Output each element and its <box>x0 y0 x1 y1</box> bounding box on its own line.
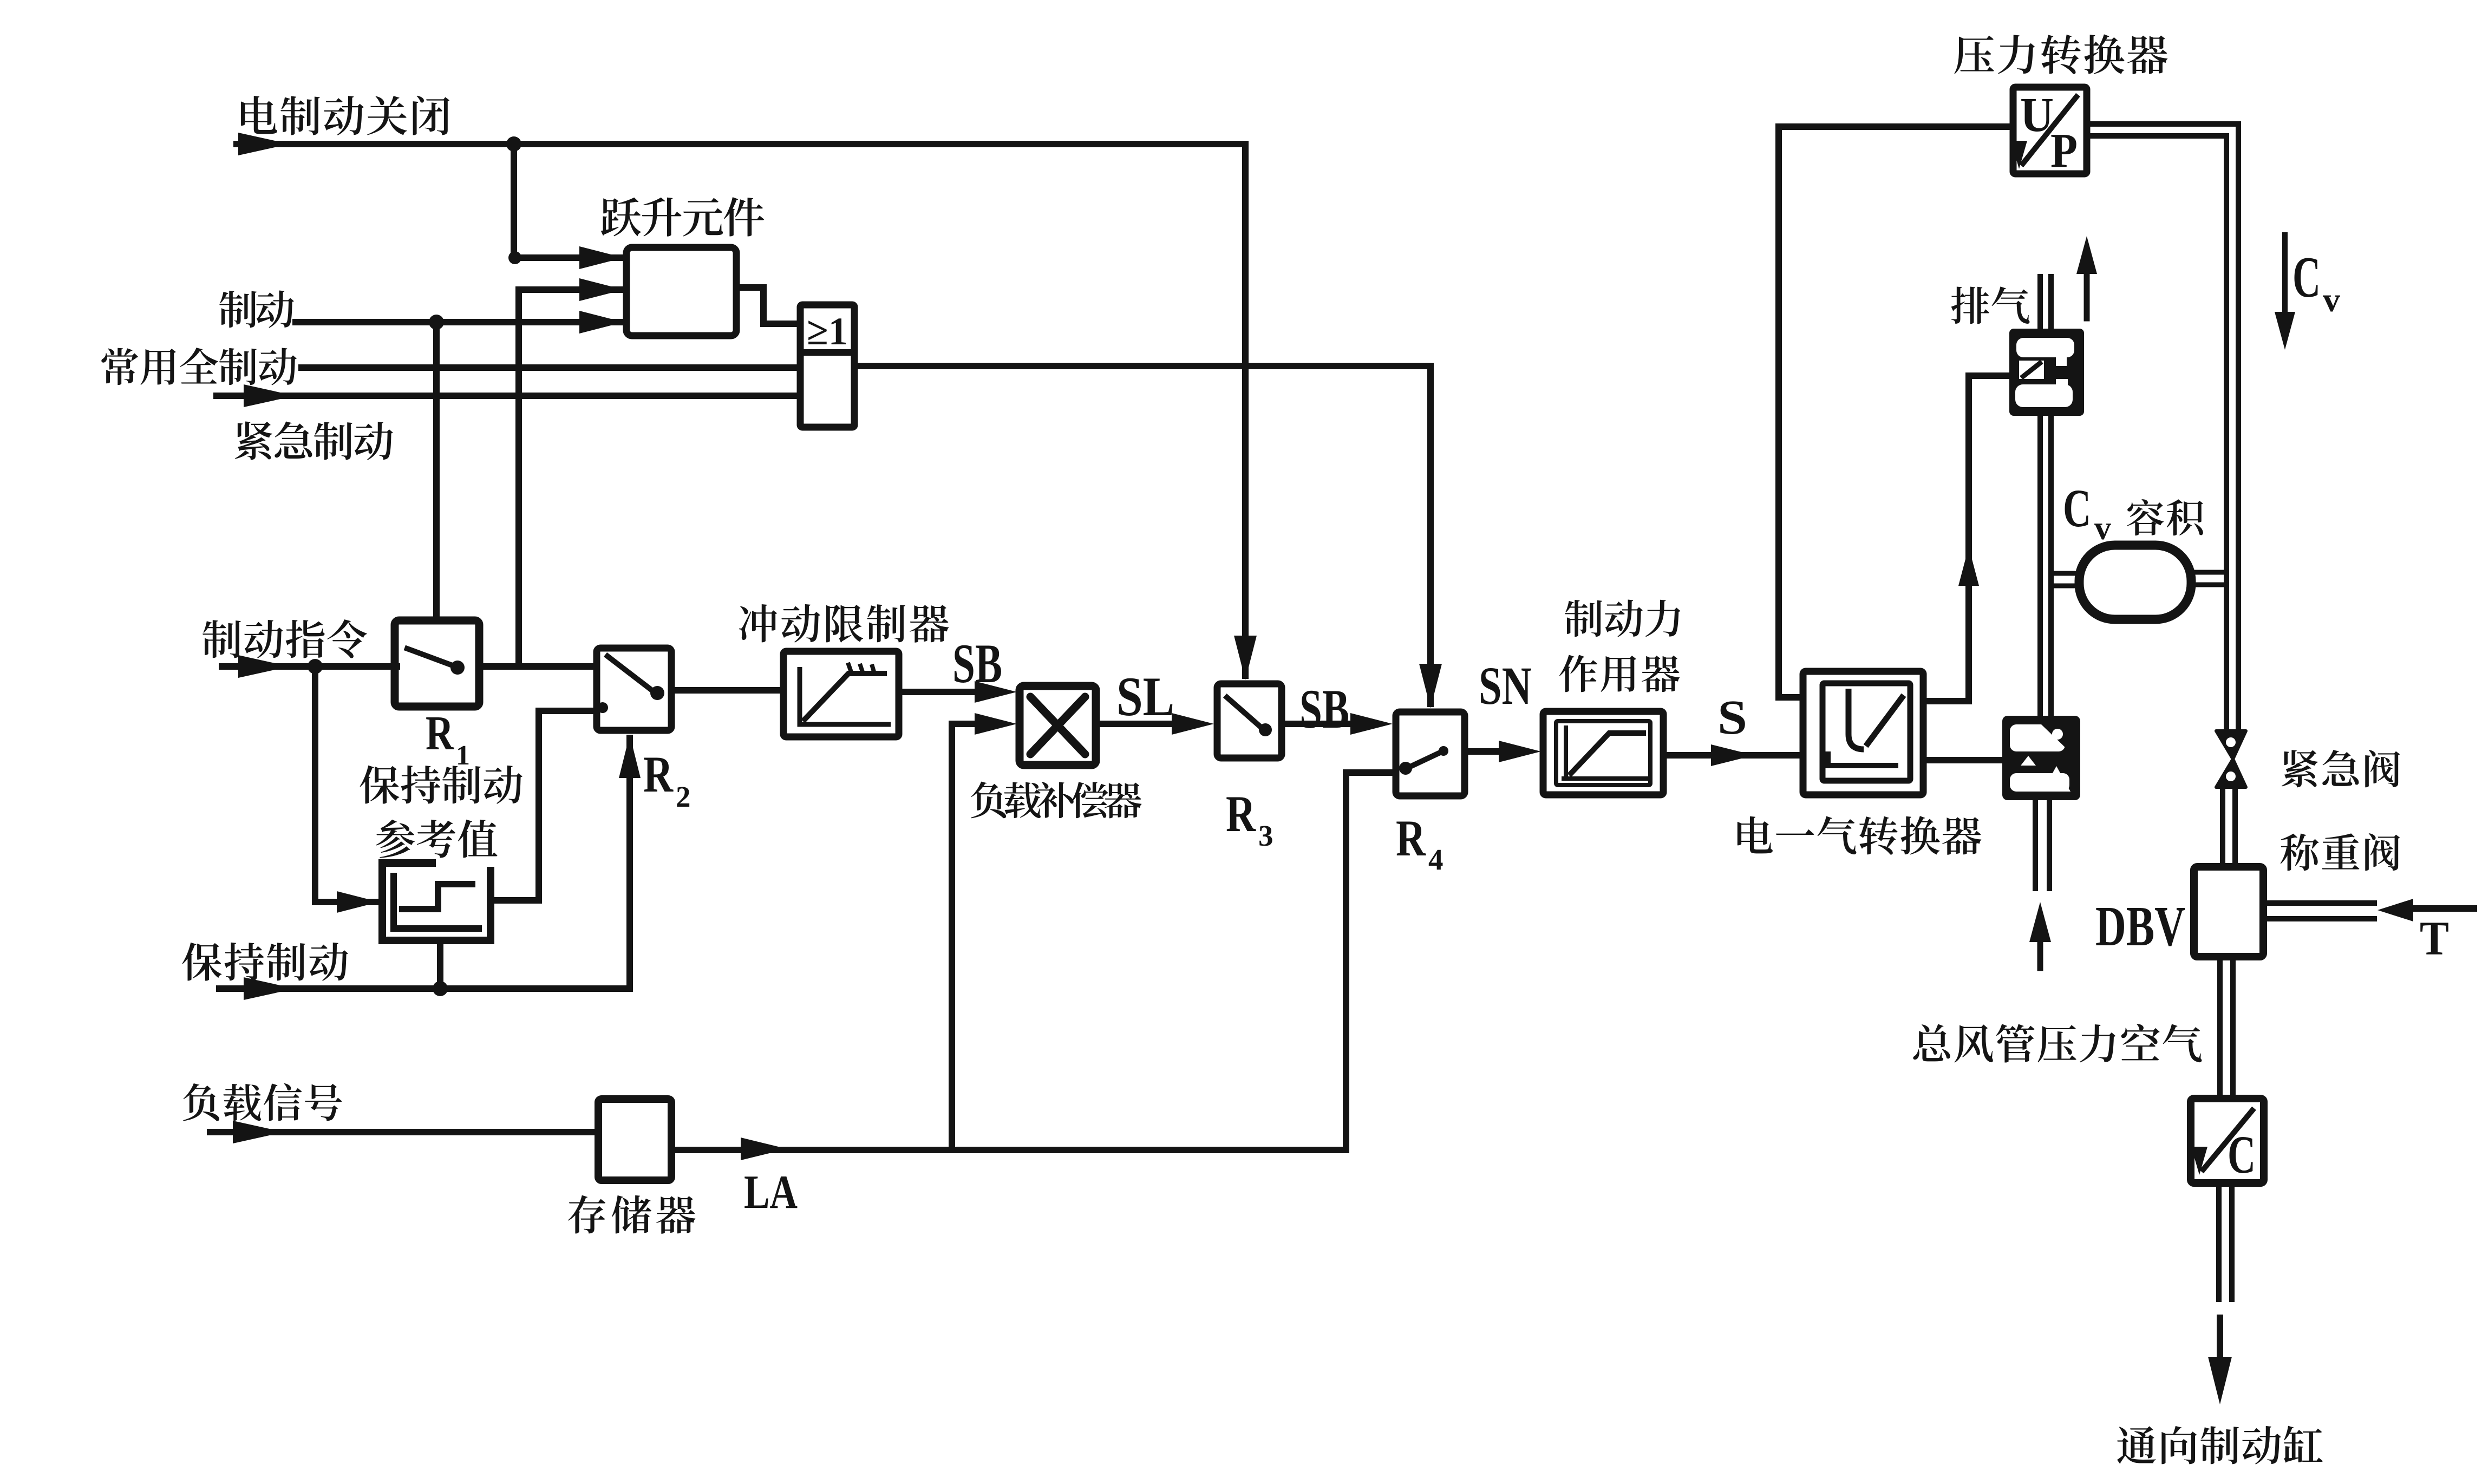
svg-text:P: P <box>2050 124 2078 178</box>
contact dot R2 <box>650 686 664 700</box>
E-P converter valve curve symbol <box>1849 689 1864 749</box>
box: jerk limiter <box>783 651 899 737</box>
svg-text:SB: SB <box>1299 678 1349 740</box>
arrowhead on 制动指令 input <box>238 655 290 678</box>
pipe: C box down <box>2216 1183 2222 1299</box>
exhaust solenoid valve <box>2009 329 2084 416</box>
svg-text:SB: SB <box>952 633 1002 695</box>
label: 容积 (volume) <box>2127 499 2203 535</box>
node: junction on 制动指令 line <box>308 659 323 674</box>
label: 负载补偿器 (load compensator) <box>971 782 1141 819</box>
label: 跃升元件 (jump element) <box>601 197 764 237</box>
arrowhead jump input 2 <box>579 278 624 301</box>
wire: 电制动关闭 line <box>237 141 1245 147</box>
contact dot R3 <box>1259 723 1272 736</box>
main reservoir inlet arrow <box>2037 924 2043 968</box>
wire: 制动指令 down to hold-brake reference <box>315 666 376 902</box>
label: 保持制动 reference line1 <box>360 766 522 804</box>
label: 总风管压力空气 (main reservoir pipe air) <box>1913 1024 2202 1062</box>
wire: 制动 line to jump unit <box>296 319 623 325</box>
wire: 紧急制动 line to OR gate <box>217 393 800 399</box>
arrowhead jump input 3 <box>579 311 624 334</box>
arrowhead into load compensator in 2 <box>975 713 1017 735</box>
arrowhead on C diagonal <box>2191 1147 2207 1175</box>
port dot R4 <box>1399 762 1412 775</box>
pipe: DBV right to T <box>2263 900 2374 906</box>
wire: pressure feedback into E-P converter <box>1779 694 1800 701</box>
box: OR gate ≥1 <box>800 305 854 427</box>
label: 压力转换器 (pressure transducer) <box>1954 34 2167 74</box>
label: 称重阀 (weighing valve) <box>2281 833 2400 871</box>
box: memory 存储器 <box>598 1099 671 1180</box>
flow arrow Cv down <box>2282 235 2288 336</box>
wire: 电制动关闭 drop to R3 top <box>1242 144 1249 676</box>
label: 制动 (brake) <box>219 291 294 328</box>
svg-text:T: T <box>2420 912 2449 965</box>
box: load compensator multiplier <box>1020 686 1096 765</box>
arrowhead into R4 <box>1350 713 1393 735</box>
svg-text:C: C <box>2292 245 2321 310</box>
divider of OR gate box <box>800 349 854 356</box>
box: E-P converter inner <box>1823 683 1910 781</box>
switch blade R4 <box>1406 751 1444 769</box>
wire: feedback loop up to U-P transducer <box>1779 127 2010 697</box>
wire: SL output to R3 <box>1096 721 1176 727</box>
pipe: DBV down to C transducer <box>2217 957 2223 1099</box>
svg-text:R: R <box>1396 809 1426 867</box>
box: C pressure transducer <box>2191 1099 2264 1183</box>
wire: 制动指令 into R1 <box>222 663 397 670</box>
box: U-P transducer <box>2013 87 2087 174</box>
actuator curve symbol <box>1562 725 1649 779</box>
wire: E-P output to relay valve <box>1923 757 2002 763</box>
box: relay R3 <box>1217 684 1282 758</box>
arrowhead into R3 <box>1172 713 1214 735</box>
C box diagonal <box>2202 1108 2254 1172</box>
wire: S output into E-P converter <box>1663 752 1800 759</box>
label: 电一气转换器 (electro-pneumatic converter) <box>1738 816 1982 855</box>
switch blade R3 <box>1227 697 1263 729</box>
label: 冲动限制器 (jerk limiter) <box>739 604 949 643</box>
box: relay R2 <box>597 648 671 730</box>
arrowhead into brake-force actuator <box>1499 741 1541 762</box>
wire: R3 SB output to R4 <box>1282 721 1358 727</box>
pipe: exhaust pipes above valve <box>2037 277 2043 329</box>
svg-text:SN: SN <box>1479 656 1532 716</box>
emergency valve knot <box>2216 731 2246 787</box>
wire: 常用全制动 line to OR gate <box>302 364 800 371</box>
wire: T stub <box>2413 905 2474 912</box>
arrowhead into load compensator in 1 <box>975 681 1017 703</box>
svg-text:3: 3 <box>1258 819 1273 852</box>
svg-text:S: S <box>1717 691 1747 744</box>
contact dot R1 <box>450 661 465 675</box>
wire: store bottom to 保持制动 line <box>437 944 443 989</box>
contact dot R4 <box>1439 746 1448 756</box>
label: 常用全制动 (full service brake) <box>101 348 297 385</box>
node: junction on 电制动关闭 line <box>506 136 521 152</box>
arrowhead on S line <box>1711 744 1754 766</box>
wire: control into exhaust valve <box>1969 372 2006 379</box>
node: junction on 制动 line <box>429 315 444 330</box>
X cross of load compensator <box>1030 697 1085 754</box>
label: 紧急制动 (emergency brake) <box>235 421 393 460</box>
box: relay R4 <box>1396 712 1465 796</box>
arrowhead on LA line <box>741 1137 787 1160</box>
box: brake force actuator outer <box>1543 711 1663 795</box>
label: 参考值 reference line2 <box>376 820 497 858</box>
wire: R4 load port down to LA line <box>1346 773 1396 1150</box>
wire: R2 to jerk limiter <box>671 687 783 694</box>
pipe: U-P right to main pipe pair <box>2087 124 2238 732</box>
arrowhead into R2 bottom <box>619 735 641 778</box>
svg-text:SL: SL <box>1116 666 1174 728</box>
U/P diagonal <box>2021 95 2078 166</box>
arrowhead into R3 top <box>1234 636 1257 680</box>
svg-text:C: C <box>2228 1125 2256 1185</box>
pipe: capsule left stubs <box>2052 571 2079 576</box>
wire: LA line from memory <box>671 1147 1346 1153</box>
arrowhead on 保持制动 input <box>244 977 295 1000</box>
wire: into jump unit input 1 <box>514 254 623 261</box>
svg-text:≥1: ≥1 <box>807 310 848 353</box>
arrowhead on U/P diagonal <box>2011 141 2027 169</box>
svg-text:C: C <box>2063 478 2091 538</box>
label: 电制动关闭 (electric brake off) <box>241 96 449 135</box>
svg-text:R: R <box>1226 785 1256 842</box>
box: brake force actuator inner <box>1556 721 1650 785</box>
arrowhead T input <box>2378 899 2413 921</box>
wire: 保持制动 input line <box>219 985 630 992</box>
box: hold-brake reference store (vessel) <box>382 863 491 940</box>
relay valve (weighing) <box>2002 716 2080 800</box>
wire: OR gate long output to R4 <box>854 363 1431 369</box>
exhaust up arrow <box>2084 254 2090 318</box>
arrowhead up on control wire <box>1958 547 1979 586</box>
label: 存储器 (memory) <box>568 1195 695 1234</box>
wire: store output up to R2 port <box>494 711 597 900</box>
wire: LA riser into load compensator <box>952 724 981 1150</box>
pipe: exhaust valve down to relay valve <box>2037 416 2043 716</box>
wire: jump unit output to OR gate <box>736 287 797 324</box>
box: E-P converter outer <box>1803 671 1923 795</box>
box: jump unit 跃升元件 <box>626 247 736 336</box>
label: 制动力 line1 <box>1565 600 1680 637</box>
label: 通向制动缸 (to brake cylinder) <box>2117 1426 2323 1465</box>
pipe: knot down to DBV <box>2220 787 2225 867</box>
node: junction with store drop <box>433 981 448 996</box>
svg-text:4: 4 <box>1428 843 1444 876</box>
wire: 负载信号 into memory <box>210 1129 598 1135</box>
wire: limiter SB output to load compensator <box>899 689 980 695</box>
svg-text:DBV: DBV <box>2095 894 2185 958</box>
wire: drop to jump-unit input 1 <box>511 144 517 258</box>
svg-text:U: U <box>2020 88 2054 142</box>
arrowhead on 负载信号 input <box>233 1121 284 1143</box>
wire: R4 SN output <box>1465 748 1506 755</box>
arrowhead jump input 1 <box>579 246 624 269</box>
svg-text:2: 2 <box>676 780 691 813</box>
label: 负载信号 (load signal) <box>183 1083 342 1121</box>
switch blade R1 <box>407 649 454 666</box>
arrow to brake cylinder <box>2217 1318 2223 1370</box>
arrowhead on 紧急制动 input <box>244 384 295 407</box>
wire: R1 to R2 <box>479 663 597 670</box>
wire: riser to jump unit input 2 <box>519 290 623 666</box>
port dot R2 <box>597 702 608 713</box>
pipe: capsule right stubs <box>2191 570 2226 575</box>
switch blade R2 <box>608 656 654 692</box>
svg-text:R: R <box>643 746 674 803</box>
svg-text:LA: LA <box>744 1166 798 1219</box>
label: 排气 (exhaust) <box>1951 286 2030 324</box>
label: 制动指令 (brake command) <box>203 619 367 658</box>
arrowhead into hold-brake reference store <box>337 891 379 913</box>
svg-text:1: 1 <box>456 740 470 771</box>
label: 保持制动 (hold brake) <box>182 943 348 981</box>
label: 紧急阀 (emergency valve) <box>2282 750 2400 787</box>
jerk limiter curve symbol <box>800 667 891 724</box>
box: relay R1 <box>395 620 479 707</box>
arrowhead on 电制动关闭 input <box>238 133 290 155</box>
wire: E-P control to exhaust valve <box>1923 376 1969 701</box>
wire: 制动 drop to R1 <box>433 322 440 620</box>
wire: drop into R4 top <box>1427 366 1434 704</box>
svg-text:R: R <box>426 707 454 760</box>
wire: riser into R2 bottom <box>626 738 633 989</box>
svg-text:v: v <box>2323 280 2340 319</box>
label: 作用器 line2 <box>1559 655 1680 692</box>
pipe: below relay valve <box>2033 800 2038 888</box>
arrowhead into R4 top <box>1419 664 1442 708</box>
Cv volume reservoir capsule <box>2079 545 2191 619</box>
box: DBV <box>2194 867 2263 957</box>
node: corner dot <box>508 251 521 264</box>
